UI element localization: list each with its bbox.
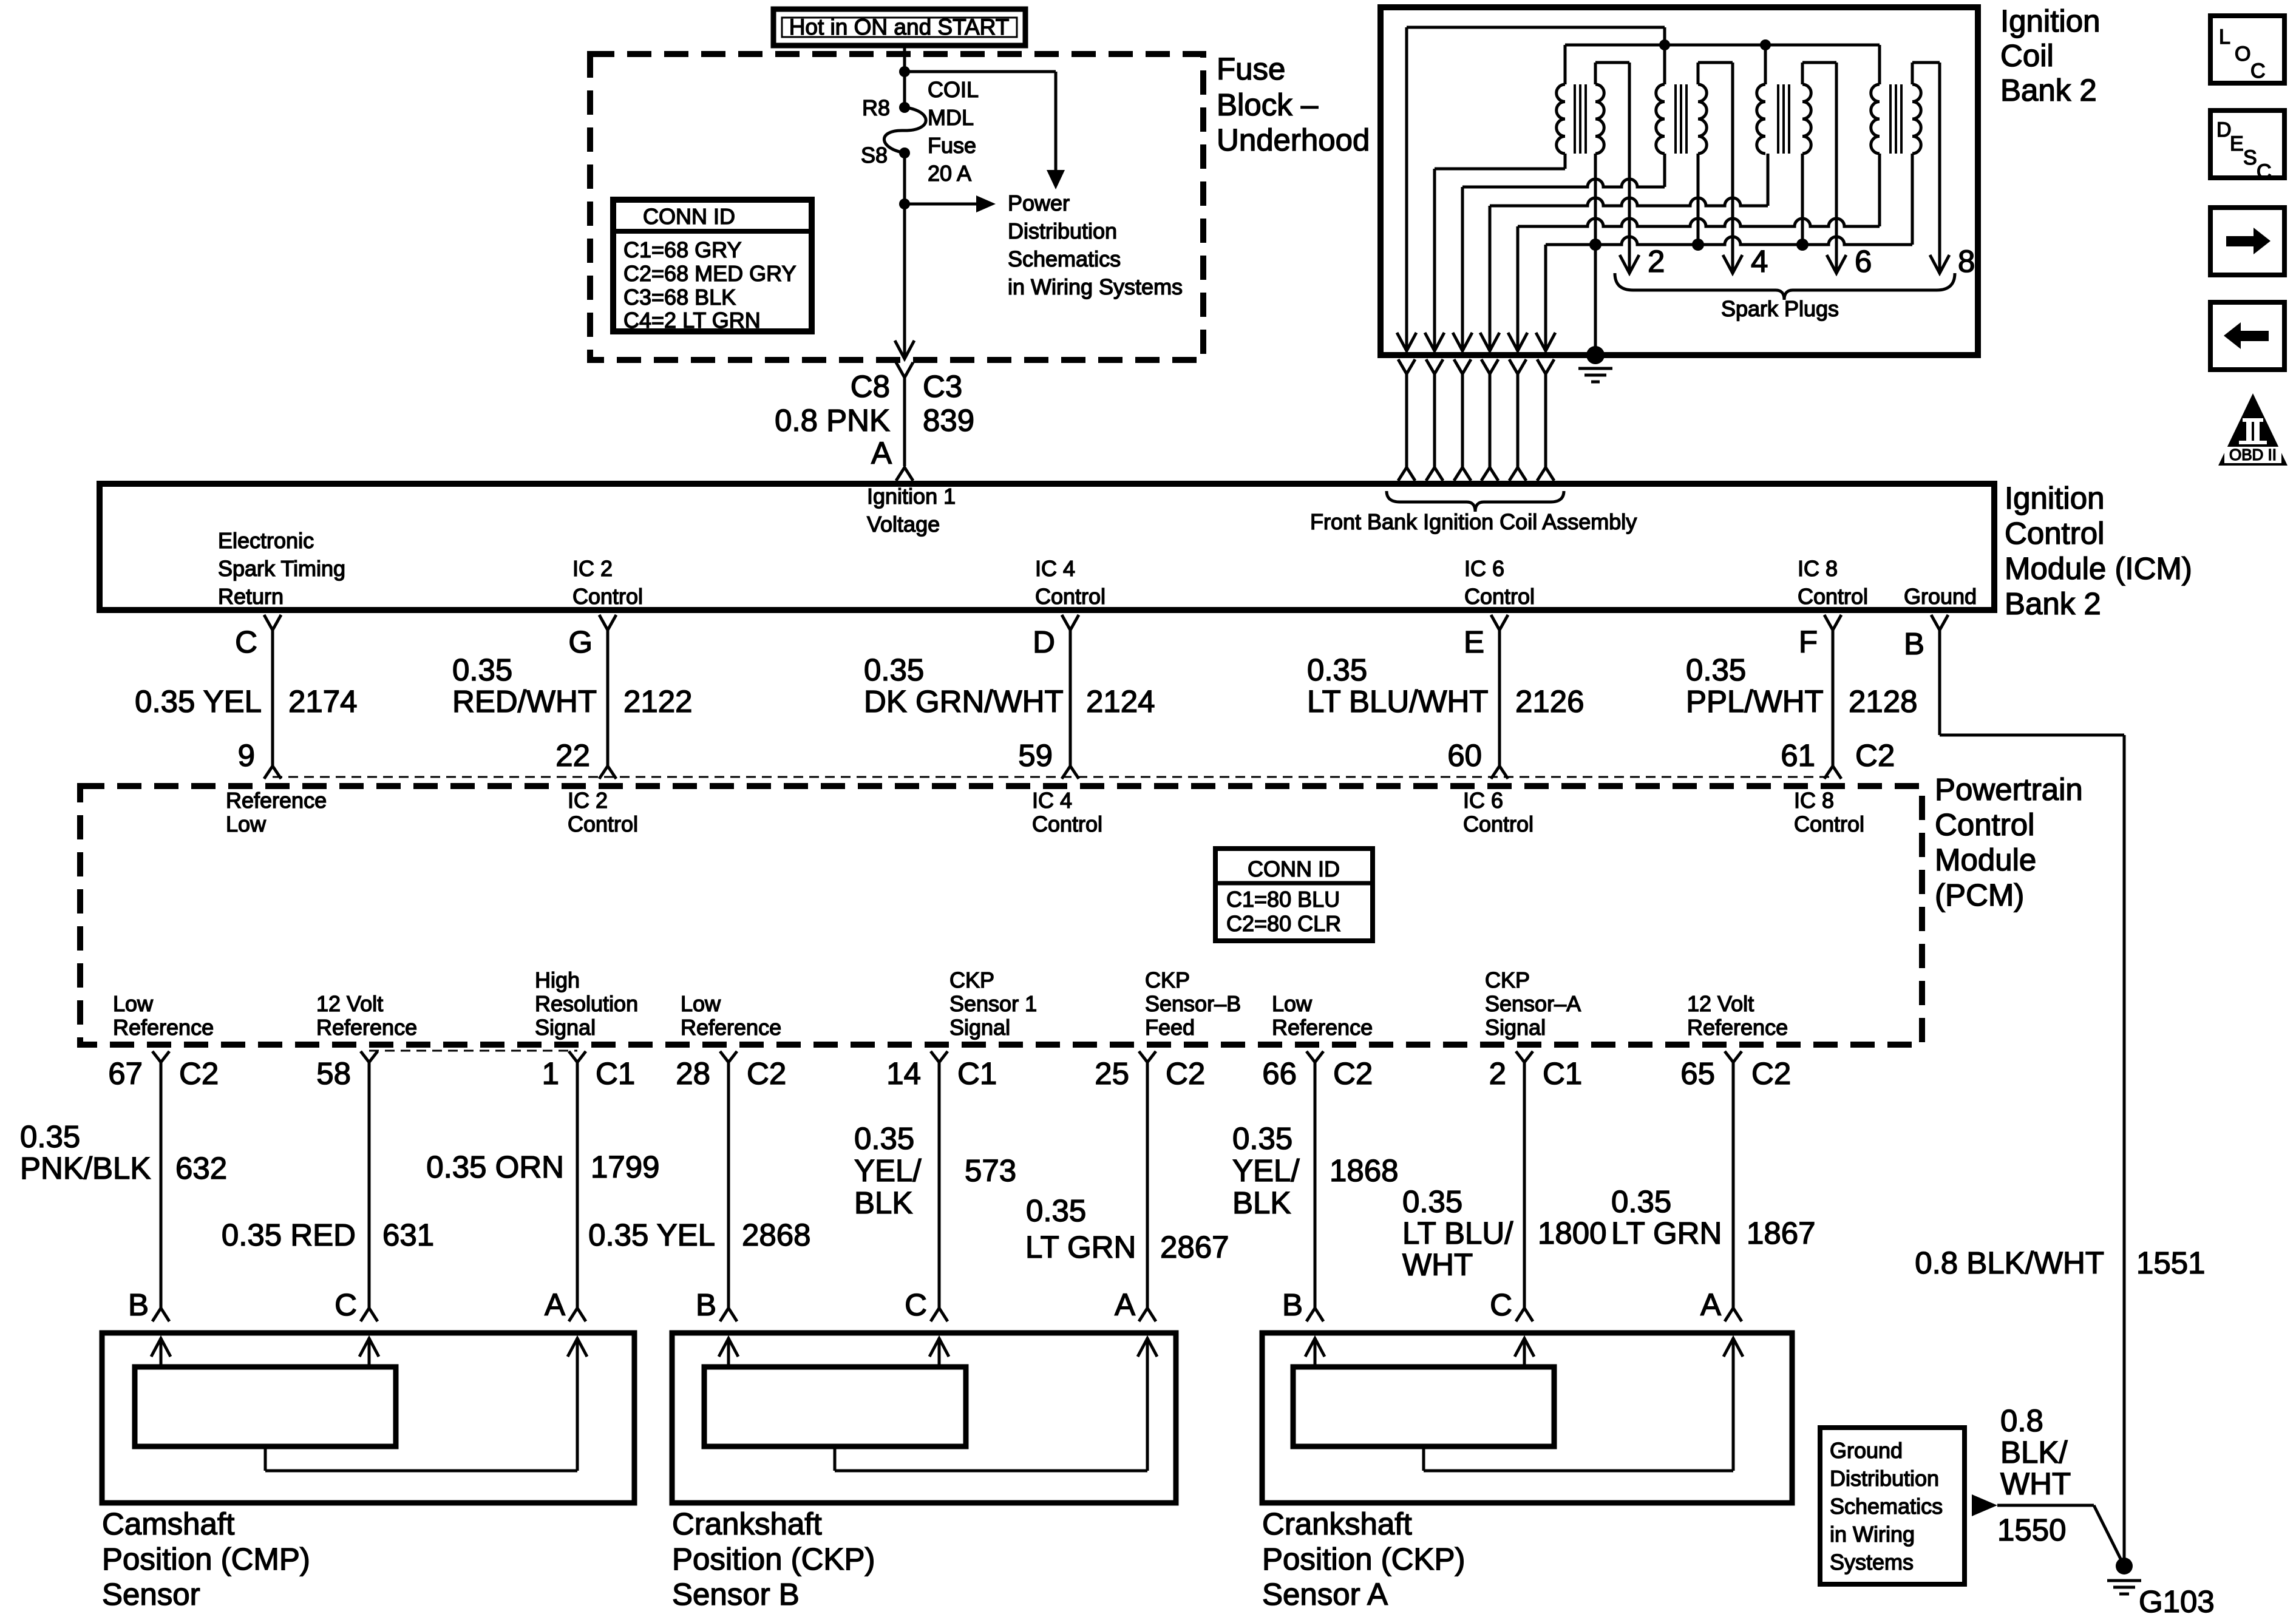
svg-text:Low: Low	[226, 812, 267, 836]
svg-text:IC 6: IC 6	[1464, 556, 1504, 581]
svg-text:0.35: 0.35	[864, 653, 924, 687]
svg-text:LT GRN: LT GRN	[1025, 1230, 1136, 1264]
svg-text:LT BLU/: LT BLU/	[1402, 1216, 1513, 1250]
svg-text:F: F	[1799, 625, 1818, 659]
svg-text:C2: C2	[1166, 1056, 1205, 1091]
svg-text:Control: Control	[1464, 584, 1535, 609]
svg-text:High: High	[535, 968, 580, 992]
svg-text:0.35 RED: 0.35 RED	[222, 1218, 356, 1252]
svg-text:Module: Module	[1935, 842, 2036, 877]
svg-text:YEL/: YEL/	[1232, 1153, 1300, 1188]
svg-text:B: B	[696, 1287, 716, 1322]
svg-text:C2: C2	[747, 1056, 786, 1091]
svg-text:Signal: Signal	[949, 1015, 1010, 1040]
svg-text:E: E	[1464, 625, 1484, 659]
svg-text:1867: 1867	[1747, 1216, 1815, 1250]
svg-text:B: B	[1282, 1287, 1303, 1322]
svg-text:Powertrain: Powertrain	[1935, 772, 2083, 807]
svg-text:A: A	[871, 436, 892, 470]
svg-text:Control: Control	[1463, 812, 1533, 836]
svg-text:28: 28	[676, 1056, 710, 1091]
svg-text:Crankshaft: Crankshaft	[672, 1507, 822, 1541]
svg-text:C3=68 BLK: C3=68 BLK	[623, 285, 736, 310]
svg-text:BLK: BLK	[854, 1185, 912, 1220]
svg-text:C: C	[2250, 59, 2266, 83]
svg-text:0.35: 0.35	[1026, 1193, 1086, 1228]
svg-text:IC 8: IC 8	[1794, 788, 1834, 813]
svg-text:MDL: MDL	[928, 105, 974, 130]
svg-text:Control: Control	[1032, 812, 1102, 836]
svg-text:0.35: 0.35	[854, 1121, 914, 1156]
svg-text:G: G	[568, 625, 593, 659]
svg-text:IC 4: IC 4	[1032, 788, 1072, 813]
svg-text:2: 2	[1489, 1056, 1506, 1091]
svg-text:Reference: Reference	[681, 1015, 781, 1040]
svg-text:0.35: 0.35	[1402, 1184, 1462, 1219]
svg-text:20 A: 20 A	[928, 161, 971, 186]
svg-text:C: C	[335, 1287, 357, 1322]
svg-text:C3: C3	[923, 369, 962, 404]
svg-text:1551: 1551	[2136, 1246, 2205, 1280]
svg-text:Signal: Signal	[535, 1015, 596, 1040]
svg-text:BLK/: BLK/	[2000, 1435, 2068, 1470]
svg-text:RED/WHT: RED/WHT	[452, 684, 597, 719]
svg-text:58: 58	[316, 1056, 351, 1091]
svg-text:0.8 BLK/WHT: 0.8 BLK/WHT	[1915, 1246, 2104, 1280]
svg-text:66: 66	[1262, 1056, 1297, 1091]
svg-text:Reference: Reference	[1272, 1015, 1373, 1040]
svg-text:C: C	[1490, 1287, 1512, 1322]
svg-text:6: 6	[1855, 244, 1872, 279]
svg-text:Ignition: Ignition	[2000, 4, 2100, 38]
svg-text:COIL: COIL	[928, 77, 979, 102]
svg-text:Camshaft: Camshaft	[102, 1507, 234, 1541]
svg-text:2174: 2174	[288, 684, 357, 719]
svg-text:Systems: Systems	[1830, 1550, 1914, 1575]
svg-text:0.35 ORN: 0.35 ORN	[426, 1150, 564, 1184]
svg-text:OBD II: OBD II	[2229, 446, 2277, 464]
svg-text:S: S	[2243, 146, 2257, 169]
svg-text:C1=80 BLU: C1=80 BLU	[1226, 887, 1340, 912]
svg-text:Underhood: Underhood	[1217, 123, 1370, 157]
svg-text:LT BLU/WHT: LT BLU/WHT	[1307, 684, 1488, 719]
svg-text:G103: G103	[2139, 1584, 2215, 1617]
svg-text:Low: Low	[681, 991, 721, 1016]
svg-text:in Wiring: in Wiring	[1830, 1522, 1915, 1547]
svg-text:B: B	[128, 1287, 149, 1322]
svg-text:Reference: Reference	[316, 1015, 417, 1040]
svg-text:2122: 2122	[623, 684, 692, 719]
svg-text:Fuse: Fuse	[1217, 52, 1285, 86]
svg-text:14: 14	[886, 1056, 921, 1091]
svg-text:Feed: Feed	[1145, 1015, 1195, 1040]
svg-text:CONN ID: CONN ID	[643, 204, 735, 229]
svg-text:2126: 2126	[1515, 684, 1584, 719]
svg-text:LT GRN: LT GRN	[1611, 1216, 1722, 1250]
svg-text:C1=68 GRY: C1=68 GRY	[623, 237, 741, 262]
svg-text:YEL/: YEL/	[854, 1153, 922, 1188]
svg-text:Hot in ON and START: Hot in ON and START	[789, 15, 1010, 39]
svg-text:CKP: CKP	[1145, 968, 1190, 992]
svg-text:C8: C8	[851, 369, 890, 404]
svg-text:25: 25	[1095, 1056, 1129, 1091]
svg-text:Low: Low	[1272, 991, 1313, 1016]
svg-text:Ignition: Ignition	[2005, 481, 2104, 515]
svg-text:2867: 2867	[1160, 1230, 1229, 1264]
svg-text:C2=68 MED GRY: C2=68 MED GRY	[623, 261, 796, 286]
svg-text:Distribution: Distribution	[1008, 219, 1117, 243]
svg-text:0.35: 0.35	[1611, 1184, 1671, 1219]
svg-text:L: L	[2219, 25, 2230, 49]
svg-text:8: 8	[1958, 244, 1975, 279]
svg-text:Sensor–A: Sensor–A	[1485, 991, 1581, 1016]
svg-text:9: 9	[238, 738, 255, 773]
svg-text:Module (ICM): Module (ICM)	[2005, 551, 2192, 586]
svg-text:0.35: 0.35	[1686, 653, 1746, 687]
svg-text:D: D	[1033, 625, 1055, 659]
svg-text:Ground: Ground	[1904, 584, 1977, 609]
svg-text:E: E	[2230, 132, 2244, 155]
svg-text:Reference: Reference	[113, 1015, 214, 1040]
svg-text:D: D	[2216, 118, 2232, 141]
svg-text:1799: 1799	[591, 1150, 659, 1184]
svg-text:(PCM): (PCM)	[1935, 878, 2024, 912]
svg-text:632: 632	[175, 1151, 227, 1185]
svg-text:Voltage: Voltage	[867, 512, 940, 537]
svg-text:Signal: Signal	[1485, 1015, 1546, 1040]
svg-text:Position (CMP): Position (CMP)	[102, 1542, 310, 1576]
svg-text:4: 4	[1751, 244, 1768, 279]
svg-text:Position (CKP): Position (CKP)	[672, 1542, 875, 1576]
svg-text:C2: C2	[1855, 738, 1895, 773]
svg-text:Spark Timing: Spark Timing	[218, 556, 345, 581]
svg-text:Front Bank Ignition Coil Assem: Front Bank Ignition Coil Assembly	[1310, 509, 1637, 534]
svg-text:in Wiring Systems: in Wiring Systems	[1008, 274, 1183, 299]
svg-text:Fuse: Fuse	[928, 133, 976, 158]
svg-text:Control: Control	[568, 812, 638, 836]
svg-text:Control: Control	[2005, 516, 2104, 551]
svg-text:0.8 PNK: 0.8 PNK	[775, 403, 890, 438]
svg-text:A: A	[545, 1287, 565, 1322]
svg-text:CKP: CKP	[949, 968, 994, 992]
svg-text:573: 573	[965, 1153, 1016, 1188]
svg-text:1800: 1800	[1538, 1216, 1606, 1250]
svg-text:Control: Control	[1035, 584, 1106, 609]
svg-text:12 Volt: 12 Volt	[1687, 991, 1754, 1016]
svg-text:PNK/BLK: PNK/BLK	[20, 1151, 151, 1185]
svg-text:Reference: Reference	[1687, 1015, 1788, 1040]
svg-text:1: 1	[542, 1056, 559, 1091]
svg-text:C2: C2	[1751, 1056, 1791, 1091]
svg-text:WHT: WHT	[1402, 1247, 1473, 1282]
svg-text:PPL/WHT: PPL/WHT	[1686, 684, 1824, 719]
svg-text:0.35: 0.35	[1307, 653, 1367, 687]
svg-text:0.35: 0.35	[20, 1119, 80, 1154]
svg-text:C4=2 LT GRN: C4=2 LT GRN	[623, 308, 761, 333]
svg-text:Reference: Reference	[226, 788, 327, 813]
svg-text:0.8: 0.8	[2000, 1403, 2043, 1438]
svg-text:2128: 2128	[1849, 684, 1917, 719]
svg-text:0.35 YEL: 0.35 YEL	[588, 1218, 715, 1252]
svg-text:Schematics: Schematics	[1830, 1494, 1943, 1519]
svg-text:Block –: Block –	[1217, 87, 1319, 122]
svg-text:Bank 2: Bank 2	[2000, 73, 2097, 107]
svg-text:C2: C2	[179, 1056, 219, 1091]
svg-text:CKP: CKP	[1485, 968, 1530, 992]
svg-text:Crankshaft: Crankshaft	[1262, 1507, 1412, 1541]
svg-text:A: A	[1700, 1287, 1721, 1322]
svg-text:Sensor–B: Sensor–B	[1145, 991, 1241, 1016]
svg-text:C2: C2	[1333, 1056, 1373, 1091]
svg-text:Power: Power	[1008, 191, 1070, 215]
svg-text:839: 839	[923, 403, 974, 438]
svg-text:Sensor 1: Sensor 1	[949, 991, 1037, 1016]
svg-text:60: 60	[1447, 738, 1482, 773]
svg-text:O: O	[2235, 42, 2250, 66]
svg-text:DK GRN/WHT: DK GRN/WHT	[864, 684, 1064, 719]
svg-text:12 Volt: 12 Volt	[316, 991, 383, 1016]
svg-text:Bank 2: Bank 2	[2005, 586, 2101, 621]
svg-text:R8: R8	[862, 95, 890, 120]
svg-text:C: C	[905, 1287, 927, 1322]
svg-text:67: 67	[108, 1056, 143, 1091]
svg-text:Schematics: Schematics	[1008, 246, 1121, 271]
svg-text:1868: 1868	[1330, 1153, 1398, 1188]
svg-text:61: 61	[1781, 738, 1815, 773]
svg-text:IC 2: IC 2	[572, 556, 613, 581]
svg-text:Control: Control	[1935, 807, 2034, 842]
svg-text:IC 2: IC 2	[568, 788, 608, 813]
svg-text:Return: Return	[218, 584, 284, 609]
svg-text:Control: Control	[572, 584, 643, 609]
svg-text:Control: Control	[1794, 812, 1864, 836]
svg-text:0.35: 0.35	[1232, 1121, 1292, 1156]
svg-text:2868: 2868	[742, 1218, 810, 1252]
svg-text:631: 631	[382, 1218, 434, 1252]
svg-text:C1: C1	[1543, 1056, 1582, 1091]
svg-text:2: 2	[1648, 244, 1665, 279]
svg-text:C: C	[2257, 160, 2272, 183]
svg-text:22: 22	[555, 738, 590, 773]
svg-text:Control: Control	[1798, 584, 1868, 609]
svg-text:59: 59	[1018, 738, 1053, 773]
svg-text:Position (CKP): Position (CKP)	[1262, 1542, 1465, 1576]
svg-text:Sensor B: Sensor B	[672, 1577, 800, 1612]
svg-text:IC 6: IC 6	[1463, 788, 1503, 813]
svg-text:BLK: BLK	[1232, 1185, 1291, 1220]
svg-text:Sensor A: Sensor A	[1262, 1577, 1388, 1612]
svg-text:Ground: Ground	[1830, 1438, 1903, 1463]
svg-text:Coil: Coil	[2000, 38, 2054, 73]
svg-text:A: A	[1115, 1287, 1135, 1322]
svg-text:Spark Plugs: Spark Plugs	[1721, 296, 1839, 321]
svg-text:CONN ID: CONN ID	[1248, 856, 1340, 881]
svg-text:Distribution: Distribution	[1830, 1466, 1939, 1491]
svg-text:65: 65	[1680, 1056, 1715, 1091]
svg-text:0.35 YEL: 0.35 YEL	[135, 684, 262, 719]
svg-text:Low: Low	[113, 991, 154, 1016]
svg-text:B: B	[1904, 626, 1924, 661]
svg-text:WHT: WHT	[2000, 1466, 2071, 1501]
svg-text:1550: 1550	[1997, 1513, 2066, 1547]
svg-text:Sensor: Sensor	[102, 1577, 200, 1612]
svg-text:C1: C1	[596, 1056, 635, 1091]
svg-text:C2=80 CLR: C2=80 CLR	[1226, 911, 1341, 936]
svg-text:Ignition 1: Ignition 1	[867, 484, 956, 509]
svg-text:Electronic: Electronic	[218, 528, 314, 553]
svg-text:S8: S8	[861, 143, 888, 168]
svg-text:IC 4: IC 4	[1035, 556, 1075, 581]
svg-text:C: C	[235, 625, 257, 659]
svg-text:C1: C1	[957, 1056, 997, 1091]
svg-text:Resolution: Resolution	[535, 991, 638, 1016]
svg-text:IC 8: IC 8	[1798, 556, 1838, 581]
svg-text:2124: 2124	[1086, 684, 1155, 719]
svg-text:0.35: 0.35	[452, 653, 512, 687]
